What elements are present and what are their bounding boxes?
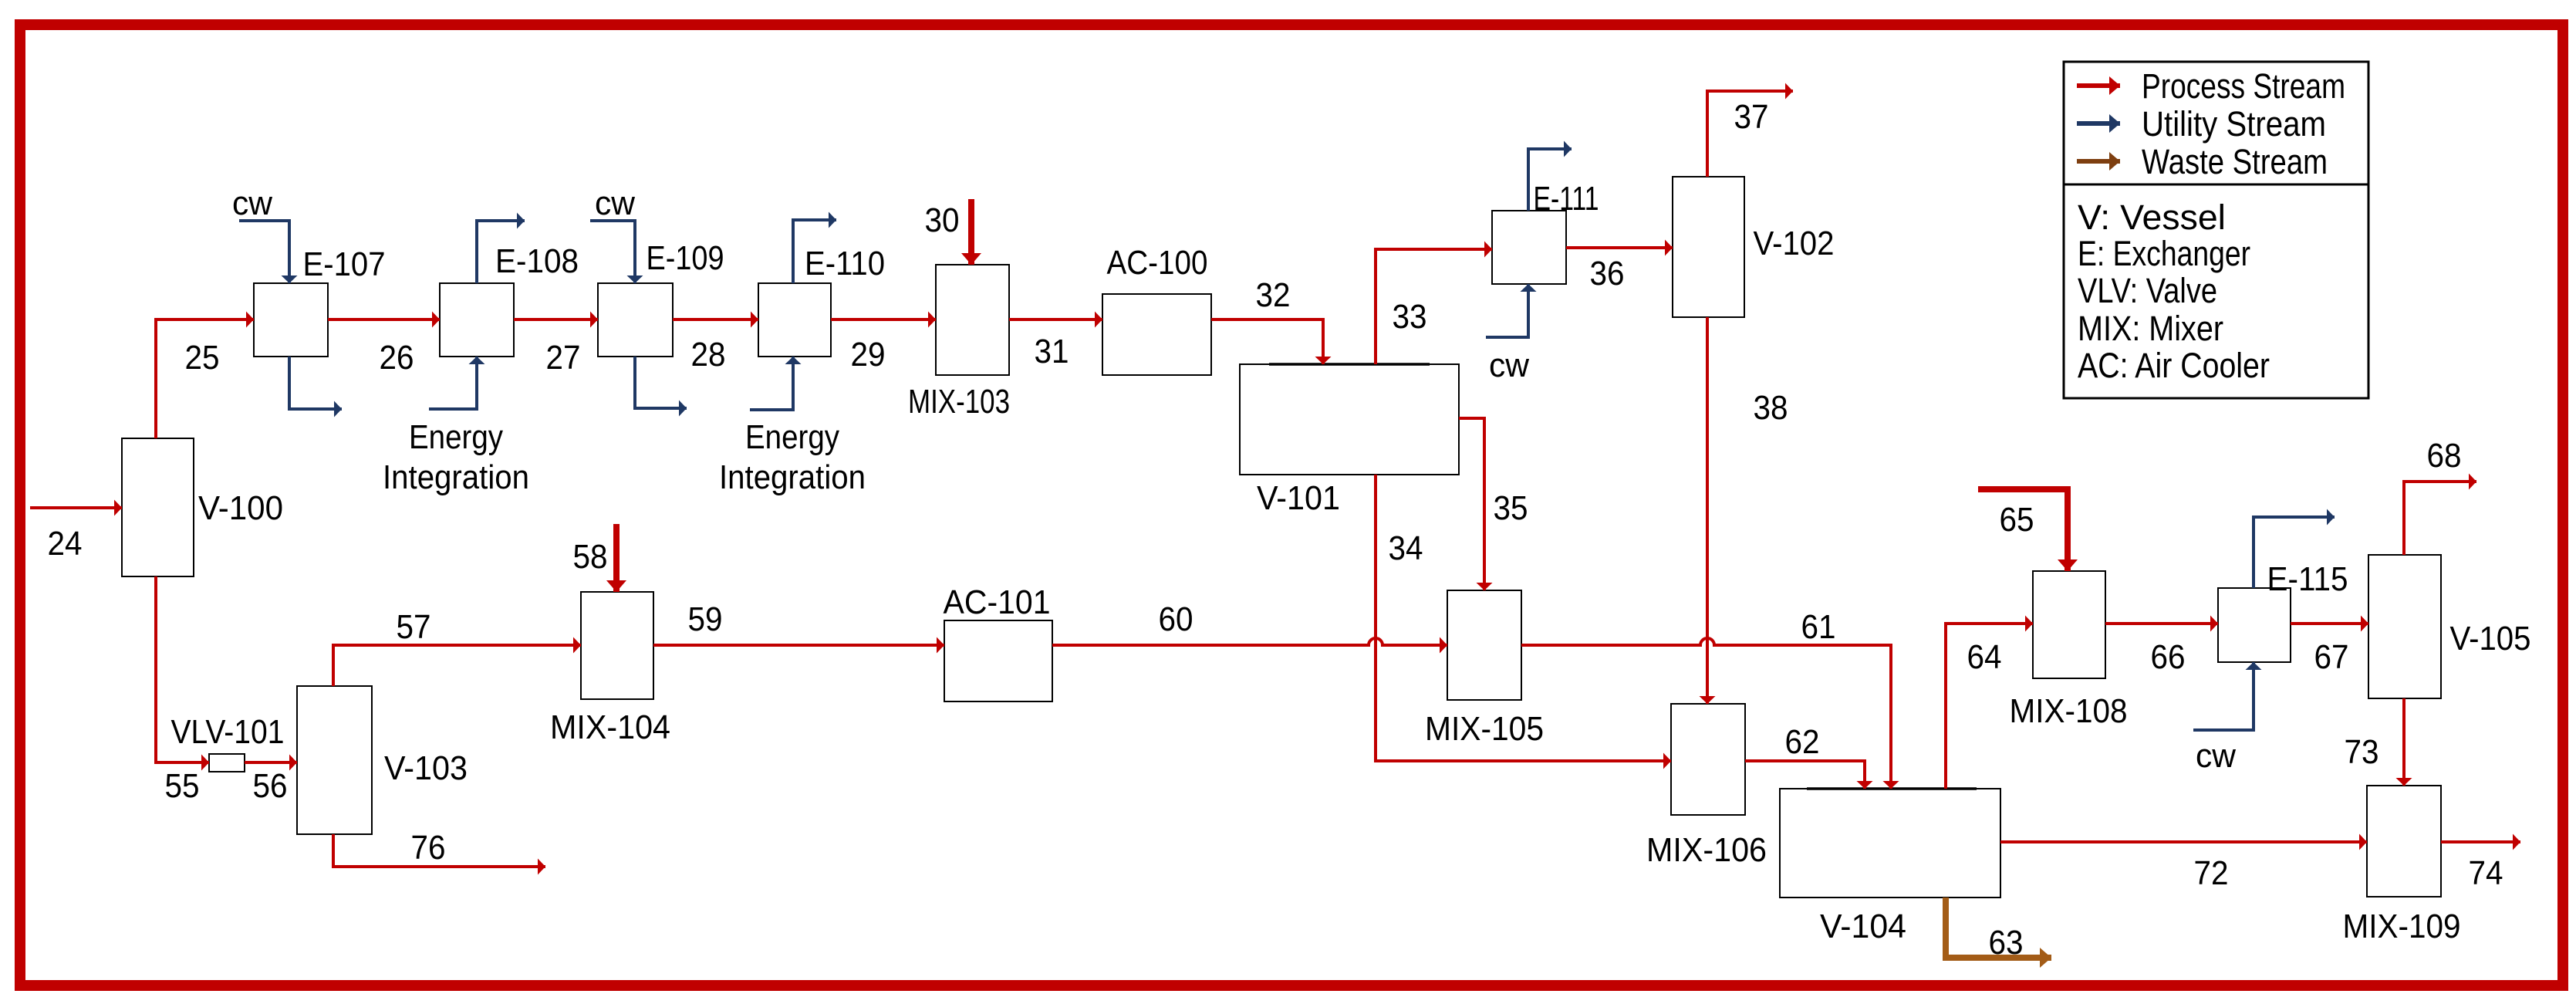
svg-text:AC-100: AC-100 — [1107, 244, 1208, 282]
svg-text:66: 66 — [2151, 638, 2186, 676]
svg-text:E-108: E-108 — [495, 242, 579, 280]
svg-text:cw: cw — [232, 184, 272, 222]
svg-text:E-109: E-109 — [647, 239, 724, 277]
svg-text:Energy: Energy — [409, 418, 503, 456]
svg-text:25: 25 — [185, 339, 220, 377]
svg-text:AC-101: AC-101 — [944, 583, 1051, 621]
svg-text:56: 56 — [253, 767, 288, 805]
svg-text:37: 37 — [1734, 98, 1769, 136]
svg-text:32: 32 — [1256, 276, 1291, 314]
svg-text:35: 35 — [1494, 489, 1528, 527]
svg-text:68: 68 — [2427, 437, 2462, 475]
svg-text:VLV-101: VLV-101 — [171, 713, 285, 751]
svg-text:30: 30 — [925, 201, 960, 239]
svg-text:E-110: E-110 — [805, 245, 885, 282]
svg-text:MIX-108: MIX-108 — [2010, 692, 2128, 730]
svg-text:38: 38 — [1754, 389, 1788, 427]
svg-text:AC: Air Cooler: AC: Air Cooler — [2078, 346, 2270, 385]
svg-text:VLV: Valve: VLV: Valve — [2078, 271, 2217, 310]
svg-text:MIX-104: MIX-104 — [550, 708, 670, 746]
svg-text:73: 73 — [2345, 733, 2379, 771]
svg-text:36: 36 — [1590, 255, 1625, 292]
svg-text:27: 27 — [546, 339, 581, 377]
svg-text:V-100: V-100 — [198, 489, 283, 527]
svg-text:Utility Stream: Utility Stream — [2142, 104, 2326, 144]
svg-text:63: 63 — [1989, 924, 2024, 962]
svg-text:Waste Stream: Waste Stream — [2142, 142, 2328, 181]
svg-text:26: 26 — [380, 339, 414, 377]
svg-text:V-103: V-103 — [384, 749, 468, 787]
svg-text:64: 64 — [1967, 638, 2002, 676]
svg-text:MIX-103: MIX-103 — [908, 383, 1010, 421]
svg-text:E-115: E-115 — [2267, 560, 2348, 598]
svg-text:62: 62 — [1785, 723, 1820, 761]
svg-text:55: 55 — [165, 767, 200, 805]
svg-text:24: 24 — [48, 525, 83, 563]
svg-text:cw: cw — [1489, 346, 1529, 384]
svg-text:MIX-106: MIX-106 — [1646, 831, 1767, 869]
svg-text:E-107: E-107 — [303, 245, 386, 283]
svg-text:MIX-109: MIX-109 — [2343, 908, 2461, 945]
svg-text:MIX: Mixer: MIX: Mixer — [2078, 309, 2223, 348]
svg-text:V-101: V-101 — [1257, 479, 1340, 517]
svg-text:cw: cw — [2196, 737, 2236, 775]
svg-text:28: 28 — [691, 336, 726, 374]
svg-text:59: 59 — [688, 600, 723, 638]
svg-text:34: 34 — [1389, 529, 1423, 567]
svg-text:74: 74 — [2469, 854, 2503, 892]
svg-text:31: 31 — [1035, 333, 1069, 370]
svg-text:67: 67 — [2314, 638, 2349, 676]
svg-text:Integration: Integration — [383, 458, 529, 496]
svg-text:Process Stream: Process Stream — [2142, 66, 2345, 106]
svg-text:60: 60 — [1159, 600, 1193, 638]
svg-text:58: 58 — [573, 538, 608, 576]
svg-text:29: 29 — [851, 336, 886, 374]
svg-text:57: 57 — [397, 608, 431, 646]
svg-text:cw: cw — [595, 184, 635, 222]
svg-text:E: Exchanger: E: Exchanger — [2078, 234, 2250, 273]
svg-text:V: Vessel: V: Vessel — [2078, 198, 2226, 237]
svg-text:V-105: V-105 — [2450, 620, 2531, 658]
svg-text:72: 72 — [2194, 854, 2229, 892]
svg-text:33: 33 — [1393, 298, 1427, 336]
svg-text:Integration: Integration — [719, 458, 866, 496]
svg-text:Energy: Energy — [745, 418, 839, 456]
svg-text:V-102: V-102 — [1754, 225, 1835, 262]
svg-text:V-104: V-104 — [1820, 908, 1906, 945]
svg-text:76: 76 — [411, 829, 446, 867]
svg-text:E-111: E-111 — [1534, 180, 1599, 218]
svg-text:MIX-105: MIX-105 — [1425, 710, 1544, 748]
svg-text:65: 65 — [2000, 501, 2034, 539]
svg-text:61: 61 — [1801, 608, 1836, 646]
